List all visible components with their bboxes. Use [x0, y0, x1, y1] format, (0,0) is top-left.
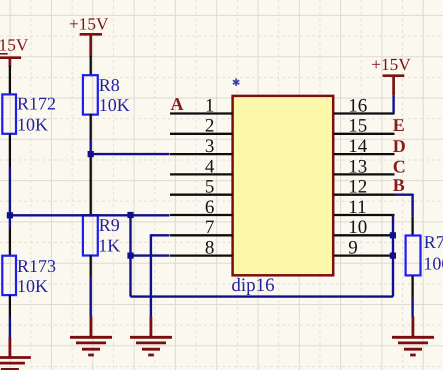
wire: pin 8 to vertical [131, 254, 170, 256]
node junction left [7, 212, 13, 218]
pin 12 [334, 194, 395, 196]
svg-text:+15V: +15V [371, 55, 411, 74]
svg-text:A: A [171, 94, 184, 114]
resistor R8 [83, 75, 98, 114]
wire: pin 7 to ground B [151, 234, 170, 236]
wire: vertical x130.5 pin6 node down to bottom bus [129, 215, 131, 297]
pin 13 [334, 173, 395, 175]
svg-text:2: 2 [205, 116, 215, 137]
svg-text:5: 5 [205, 177, 215, 198]
pin 14 [334, 153, 395, 155]
pin 2 [170, 133, 233, 135]
wire: bus row to pin 6 [10, 214, 170, 216]
pin 4 [170, 173, 233, 175]
power +15V right [371, 55, 411, 95]
svg-text:R173: R173 [17, 256, 56, 276]
svg-text:R172: R172 [17, 93, 56, 113]
svg-text:+15V: +15V [69, 15, 109, 34]
pin 7 [170, 234, 233, 236]
svg-text:12: 12 [348, 177, 367, 198]
pin 6 [170, 214, 233, 216]
svg-text:1: 1 [205, 95, 215, 116]
svg-text:100K: 100K [423, 253, 443, 273]
svg-text:+15V: +15V [0, 35, 29, 54]
svg-text:4: 4 [205, 156, 215, 177]
svg-text:13: 13 [348, 156, 367, 177]
wire: R172 bottom to node [9, 134, 11, 167]
designator placeholder * [233, 79, 239, 86]
svg-text:6: 6 [205, 197, 215, 218]
svg-text:15: 15 [348, 116, 367, 137]
svg-text:9: 9 [348, 238, 358, 259]
ground left [0, 337, 31, 369]
pin 10 [334, 234, 395, 236]
svg-text:10: 10 [348, 217, 367, 238]
wire: vertical up to pin 11 [392, 215, 394, 297]
resistor R172 [2, 94, 16, 133]
wire: +15V to R8 [90, 56, 92, 76]
svg-text:7: 7 [205, 217, 215, 238]
resistor R173 [2, 256, 16, 295]
node junction pin9 [390, 253, 396, 259]
wire: bottom bus horizontal [131, 295, 394, 297]
ground B (under pin7) [130, 317, 172, 356]
svg-text:R9: R9 [99, 215, 120, 235]
power +15V left (clipped) [0, 35, 29, 67]
svg-text:10K: 10K [17, 276, 48, 296]
svg-text:16: 16 [348, 95, 367, 116]
svg-text:11: 11 [348, 197, 366, 218]
wire: R173 bottom to ground [9, 295, 11, 317]
svg-text:10K: 10K [17, 114, 48, 134]
svg-text:8: 8 [205, 238, 215, 259]
node junction pin8/x130 [127, 253, 133, 259]
svg-text:R8: R8 [99, 75, 120, 95]
ground A (under R9) [70, 317, 112, 356]
ground C (under R7) [392, 317, 434, 356]
resistor R7 [406, 236, 421, 276]
wire: R8 bottom to pin3 node [90, 114, 92, 139]
node junction pin10 [390, 232, 396, 238]
pin 9 [334, 254, 395, 256]
pin 3 [170, 153, 233, 155]
wire: node to pin 3 [91, 153, 170, 155]
svg-text:C: C [393, 156, 406, 176]
wire: R9 bottom to ground A [90, 255, 92, 277]
svg-text:R7: R7 [424, 232, 443, 252]
node junction R8/pin3 [88, 151, 94, 157]
svg-text:E: E [393, 115, 405, 135]
wire overlay across R9 top [82, 214, 100, 216]
wire: node down to R9 [89, 154, 91, 158]
pin 5 [170, 194, 233, 196]
svg-text:3: 3 [205, 136, 215, 157]
resistor R9 [83, 216, 98, 256]
svg-text:D: D [393, 136, 406, 156]
svg-text:B: B [393, 175, 405, 195]
wire: R7 bottom to ground C [411, 276, 413, 297]
pin 15 [334, 133, 395, 135]
wire: pin 12 to R7 (net B) [395, 193, 413, 195]
svg-text:10K: 10K [99, 95, 130, 115]
chip U1 body (dip16) [233, 96, 334, 275]
node junction pin6/x130 [127, 212, 133, 218]
wire: node to R173 [9, 215, 11, 228]
power +15V middle [69, 15, 109, 57]
svg-text:dip16: dip16 [231, 275, 274, 296]
pin 8 [170, 254, 233, 256]
pin 16 [334, 112, 395, 114]
svg-text:1K: 1K [98, 236, 120, 256]
pin 1 [170, 112, 233, 114]
wire: left +15V to R172 [9, 66, 11, 96]
wire: +15V right to pin 16 [392, 95, 394, 113]
pin 11 [334, 214, 395, 216]
svg-text:14: 14 [348, 136, 368, 157]
